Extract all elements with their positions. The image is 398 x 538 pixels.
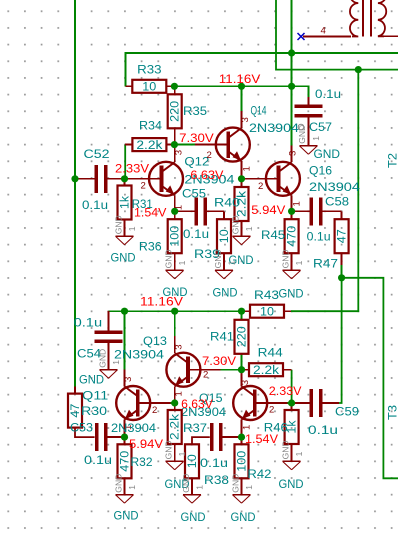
resistor R30 (47) — [68, 387, 82, 428]
wire A left drop to R33 — [125, 52, 127, 86]
svg-text:R40: R40 — [214, 195, 240, 209]
svg-text:1: 1 — [244, 485, 254, 490]
wire R47 bottom to node — [341, 265, 343, 278]
svg-text:2: 2 — [207, 150, 212, 161]
svg-text:1: 1 — [111, 360, 121, 365]
wire 11.16V rail bottom — [109, 310, 243, 312]
svg-text:Q14: Q14 — [251, 104, 267, 118]
svg-text:GND: GND — [230, 215, 240, 234]
svg-text:R42: R42 — [247, 467, 271, 481]
svg-text:T3: T3 — [386, 405, 398, 420]
resistor R38 (10) — [185, 444, 199, 494]
resistor R46 (1k) — [285, 403, 299, 461]
svg-text:2.33V: 2.33V — [269, 384, 302, 398]
svg-text:2.2k: 2.2k — [253, 365, 279, 377]
wire R30 bottom to C53 — [75, 428, 95, 438]
resistor R39 (10) — [217, 219, 231, 270]
svg-text:GND: GND — [164, 440, 174, 459]
svg-text:R30: R30 — [81, 404, 107, 418]
svg-text:R43: R43 — [254, 288, 279, 302]
svg-text:GND: GND — [280, 249, 290, 268]
transistor Q11 (2N3904) — [116, 370, 170, 437]
svg-text:6.63V: 6.63V — [181, 397, 213, 411]
svg-text:1: 1 — [195, 485, 205, 490]
capacitor C52 — [76, 165, 125, 193]
junction rail/R35 — [171, 83, 178, 90]
svg-text:GND: GND — [181, 511, 206, 524]
ground R40 — [230, 215, 254, 244]
svg-text:1: 1 — [127, 485, 137, 490]
junction rail/Q14C — [238, 83, 245, 90]
svg-text:5.94V: 5.94V — [251, 203, 285, 217]
ground R32 — [113, 474, 137, 503]
svg-text:GND: GND — [213, 249, 223, 268]
wire Q14 collector to rail — [241, 86, 243, 112]
no-connect X on pin 4 — [298, 33, 305, 40]
wire Q15 base link — [288, 402, 292, 404]
resistor R31 (1k) — [118, 179, 132, 237]
svg-text:3: 3 — [240, 380, 251, 385]
svg-text:R35: R35 — [183, 104, 207, 118]
svg-text:C59: C59 — [335, 405, 359, 419]
svg-text:11.16V: 11.16V — [219, 72, 260, 86]
wire left vertical bus — [74, 0, 76, 387]
node 6.63V bottom — [171, 399, 178, 406]
node 1.54V top — [171, 208, 178, 215]
svg-text:Q11: Q11 — [82, 389, 108, 403]
wire C58 right to R47 — [341, 211, 343, 219]
svg-text:6.63V: 6.63V — [190, 168, 223, 182]
wire V3 transformer to Q16 collector — [291, 0, 293, 146]
svg-text:GND: GND — [231, 511, 256, 524]
svg-text:0.1u: 0.1u — [84, 453, 112, 467]
junction left bus/C52 — [71, 175, 78, 182]
resistor R33 (10) — [126, 80, 175, 94]
junction R47/C59 net — [338, 274, 345, 281]
svg-text:1: 1 — [244, 226, 254, 231]
svg-text:10: 10 — [219, 229, 231, 243]
svg-text:R36: R36 — [139, 239, 162, 253]
node 2.33V bottom — [288, 399, 295, 406]
svg-text:GND: GND — [79, 373, 104, 386]
svg-text:1: 1 — [227, 260, 237, 265]
ground R37 — [164, 440, 188, 469]
svg-text:2N3904: 2N3904 — [249, 121, 299, 135]
svg-text:2.33V: 2.33V — [115, 162, 149, 176]
svg-text:2N3904: 2N3904 — [111, 421, 156, 435]
svg-text:0.1u: 0.1u — [74, 316, 103, 330]
svg-text:1: 1 — [242, 425, 253, 430]
svg-text:2: 2 — [141, 181, 146, 192]
capacitor C59 — [292, 389, 339, 417]
svg-text:10: 10 — [187, 454, 199, 468]
wire Q13 base to 7.30V node — [221, 369, 242, 371]
svg-text:R37: R37 — [183, 421, 207, 435]
svg-text:GND: GND — [97, 349, 107, 368]
svg-text:Q13: Q13 — [143, 334, 167, 348]
resistor R36 (100) — [168, 211, 182, 270]
svg-text:2.2k: 2.2k — [170, 414, 182, 440]
transformer T2 (top right) — [303, 0, 398, 36]
svg-text:2: 2 — [152, 405, 157, 416]
node 5.94V bottom — [121, 434, 128, 441]
resistor R40 (2.2k) — [235, 179, 249, 237]
svg-text:0.1u: 0.1u — [82, 198, 108, 212]
ground R45 — [280, 249, 304, 278]
svg-text:Q16: Q16 — [309, 163, 332, 177]
node 2.33V top — [121, 175, 128, 182]
junction H2/V2 — [355, 66, 362, 73]
svg-text:220: 220 — [170, 101, 182, 122]
resistor R41 (220) — [235, 320, 249, 354]
node 5.94V top — [288, 208, 295, 215]
svg-text:3: 3 — [173, 150, 184, 155]
resistor R45 (470) — [285, 211, 299, 270]
transistor Q15 (2N3904) — [233, 370, 287, 437]
node 7.30V top — [171, 141, 178, 148]
ground R31 — [113, 215, 137, 244]
junction rail2/R41 — [238, 308, 245, 315]
resistor R32 (470) — [118, 437, 132, 495]
svg-text:C53: C53 — [70, 420, 93, 434]
wire C56 left to R38 — [192, 437, 210, 444]
svg-text:4: 4 — [321, 26, 327, 37]
svg-text:R33: R33 — [137, 62, 162, 76]
svg-text:2.2k: 2.2k — [136, 140, 162, 152]
svg-text:1.54V: 1.54V — [245, 432, 278, 446]
wire 7.30V node to Q14 base — [174, 144, 196, 146]
svg-text:1: 1 — [177, 260, 187, 265]
svg-text:1: 1 — [173, 391, 184, 396]
svg-text:R47: R47 — [313, 256, 338, 270]
wire R41 bottom to 7.30V node — [241, 354, 243, 370]
svg-text:0.1u: 0.1u — [315, 87, 341, 101]
svg-text:10: 10 — [260, 307, 274, 319]
ground R42 — [230, 474, 254, 503]
ground C57 — [297, 124, 321, 154]
svg-text:2: 2 — [258, 181, 263, 192]
svg-text:470: 470 — [287, 226, 299, 247]
svg-text:3: 3 — [173, 344, 184, 349]
ground R38 — [181, 474, 205, 503]
svg-text:GND: GND — [111, 251, 136, 264]
svg-text:1: 1 — [292, 201, 303, 206]
svg-text:GND: GND — [114, 509, 139, 522]
svg-text:1k: 1k — [287, 420, 299, 433]
svg-text:0.1u: 0.1u — [200, 456, 228, 470]
transistor Q12 (2N3904) — [128, 145, 184, 212]
wire V2 right vertical — [291, 70, 358, 312]
resistor R37 (2.2k) — [168, 403, 182, 461]
svg-text:220: 220 — [237, 326, 249, 347]
capacitor C53 — [97, 423, 125, 451]
wire rail to Q11 collector — [124, 311, 126, 371]
ground R46 — [280, 440, 304, 469]
svg-text:11.16V: 11.16V — [140, 295, 183, 309]
wire Q11 base link — [171, 402, 175, 404]
svg-text:T2: T2 — [386, 153, 398, 168]
resistor R47 (47) — [335, 211, 349, 265]
junction rail2/Q13C — [171, 308, 178, 315]
wire top horizontal A — [126, 52, 398, 54]
svg-text:2N3904: 2N3904 — [114, 347, 164, 361]
wire rail junction down to R41 — [241, 311, 243, 320]
capacitor C58 — [292, 197, 342, 225]
svg-text:1k: 1k — [120, 196, 132, 209]
wire C55 right to R39 — [223, 211, 225, 219]
svg-text:GND: GND — [113, 215, 123, 234]
svg-text:47: 47 — [337, 229, 349, 243]
capacitor C56 — [212, 423, 242, 451]
svg-text:C57: C57 — [309, 120, 332, 134]
svg-text:1: 1 — [311, 136, 321, 141]
capacitor C57 — [294, 97, 322, 146]
svg-text:1: 1 — [127, 226, 137, 231]
svg-text:1: 1 — [294, 260, 304, 265]
svg-text:GND: GND — [164, 249, 174, 268]
svg-text:R32: R32 — [131, 455, 153, 469]
svg-text:0.1u: 0.1u — [307, 229, 331, 243]
capacitor C54 — [95, 311, 123, 370]
node 1.54V bottom — [238, 434, 245, 441]
svg-text:2: 2 — [269, 405, 274, 416]
svg-text:C55: C55 — [182, 187, 206, 201]
svg-text:R45: R45 — [261, 228, 285, 242]
svg-text:GND: GND — [113, 474, 123, 493]
svg-text:3: 3 — [287, 151, 298, 156]
svg-text:1: 1 — [242, 166, 253, 171]
wire 11.16V rail top — [174, 85, 308, 87]
resistor R43 (10) — [242, 305, 292, 319]
svg-text:R38: R38 — [204, 473, 229, 487]
wire rail to Q13 collector — [174, 311, 176, 342]
svg-text:GND: GND — [280, 440, 290, 459]
junction rail/V3 — [288, 83, 295, 90]
resistor R42 (100) — [235, 437, 249, 495]
svg-text:7.30V: 7.30V — [179, 131, 214, 145]
svg-text:GND: GND — [213, 287, 238, 300]
wire R34 left drop to 2.33V node — [124, 145, 126, 179]
wire Q16 base link — [242, 178, 247, 180]
svg-text:R34: R34 — [139, 118, 162, 132]
wire V1 from transformer — [276, 0, 398, 70]
svg-text:7.30V: 7.30V — [202, 354, 236, 368]
svg-text:2: 2 — [203, 370, 208, 381]
svg-text:GND: GND — [279, 478, 304, 491]
wire node to right edge loop — [342, 278, 398, 479]
svg-text:100: 100 — [170, 226, 182, 247]
junction rail2/Q11C — [121, 308, 128, 315]
svg-text:C58: C58 — [325, 194, 349, 208]
svg-text:C52: C52 — [84, 147, 110, 161]
ground R36 — [164, 249, 188, 278]
svg-text:GND: GND — [314, 148, 341, 161]
ground R39 — [213, 249, 237, 278]
resistor R44 (2.2k) — [242, 363, 292, 377]
wire node down to C59 — [337, 278, 342, 403]
junction A/V3 — [288, 49, 295, 56]
node 7.30V bottom — [238, 366, 245, 373]
capacitor C55 — [175, 197, 224, 225]
svg-text:0.1u: 0.1u — [183, 227, 209, 241]
transistor Q16 (2N3904) — [245, 145, 303, 212]
resistor R34 (2.2k) — [125, 138, 174, 152]
svg-text:1.54V: 1.54V — [134, 206, 166, 220]
svg-text:GND: GND — [279, 288, 304, 301]
svg-text:10: 10 — [142, 82, 156, 94]
wire rail drop to C57 — [307, 85, 309, 97]
resistor R35 (220) — [168, 86, 182, 144]
svg-text:R41: R41 — [210, 329, 234, 343]
svg-text:R44: R44 — [258, 346, 283, 360]
svg-text:1: 1 — [177, 451, 187, 456]
svg-text:3: 3 — [123, 377, 134, 382]
wire R44 right drop to 2.33V node — [291, 370, 293, 403]
svg-text:5.94V: 5.94V — [129, 437, 163, 451]
svg-text:2N3904: 2N3904 — [309, 180, 360, 194]
node 6.63V top — [238, 175, 245, 182]
svg-text:GND: GND — [181, 474, 191, 493]
svg-text:GND: GND — [230, 474, 240, 493]
ground C54 — [97, 349, 121, 378]
svg-text:1: 1 — [294, 451, 304, 456]
svg-text:0.1u: 0.1u — [308, 423, 338, 437]
transistor Q13 (2N3904) — [166, 336, 220, 403]
transistor Q14 (2N3904) — [195, 111, 253, 178]
